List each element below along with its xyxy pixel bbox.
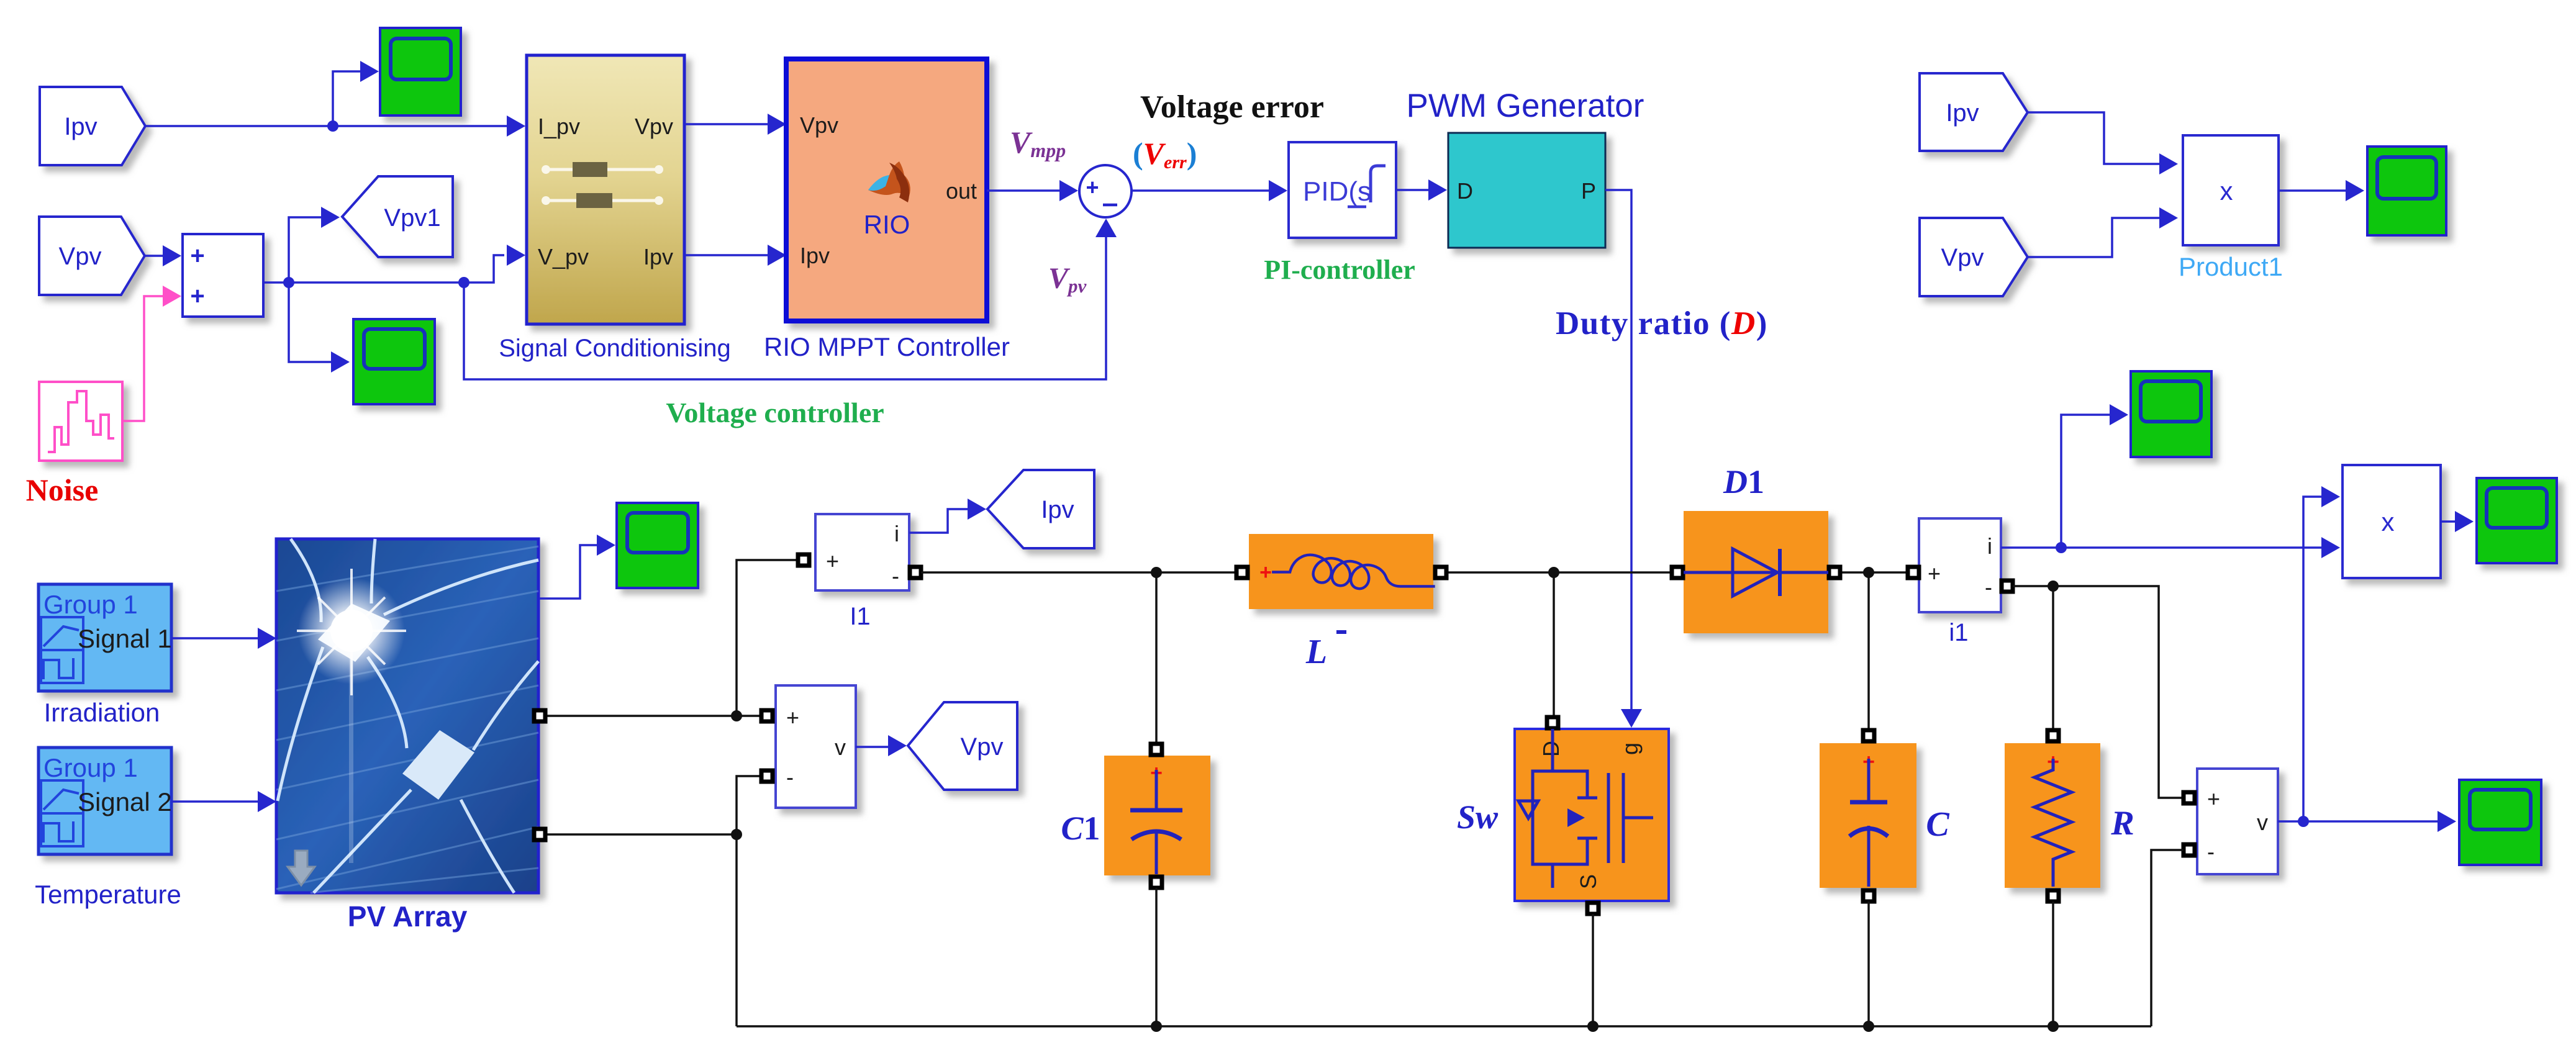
voltage sensor V (output) bbox=[2197, 769, 2278, 874]
wire Product1 to scope bbox=[2279, 189, 2347, 192]
svg-text:v: v bbox=[2257, 810, 2268, 835]
subsystem Signal Conditionising bbox=[527, 55, 684, 324]
svg-text:Ipv: Ipv bbox=[800, 243, 830, 268]
slider icon 2 bbox=[542, 199, 663, 202]
wire Product2 to scope6 bbox=[2441, 520, 2456, 523]
noise source block bbox=[39, 382, 122, 461]
svg-text:PI-controller: PI-controller bbox=[1264, 255, 1415, 285]
wire V out to goto Vpv bbox=[856, 746, 889, 748]
svg-text:Duty ratio (D): Duty ratio (D) bbox=[1556, 305, 1768, 341]
scope Scope2 bbox=[353, 319, 435, 404]
block PWM Generator bbox=[1448, 133, 1605, 248]
port i1+ bbox=[1908, 567, 1919, 578]
svg-text:i: i bbox=[894, 521, 899, 546]
capacitor C1 bbox=[1104, 756, 1210, 875]
svg-text:+: + bbox=[190, 242, 204, 269]
svg-text:R: R bbox=[2110, 804, 2134, 843]
wire Sw source to rail bbox=[1592, 914, 1594, 1026]
wire PV+ to V+ and I1 bbox=[545, 715, 760, 717]
wire V- lead bbox=[737, 776, 760, 834]
wire Ipv to Product1 bbox=[2028, 112, 2161, 164]
node C1 top bbox=[1151, 567, 1162, 578]
wire junction to scope1 bbox=[333, 71, 361, 126]
svg-text:+: + bbox=[826, 548, 839, 574]
pv down arrow icon bbox=[288, 851, 315, 885]
node sum out 2 bbox=[458, 277, 469, 288]
svg-text:v: v bbox=[835, 734, 846, 760]
wire v out up to Product2 bbox=[2303, 497, 2323, 821]
svg-text:Vpv: Vpv bbox=[961, 733, 1004, 761]
wire Vpv feedback to sum circle bbox=[464, 224, 1106, 379]
wire Temperature to PV array bbox=[171, 800, 259, 803]
wire i1 i out bbox=[2001, 546, 2323, 549]
wire sum out to Signal Conditioning V_pv bbox=[464, 255, 504, 282]
port V+ bbox=[761, 710, 773, 721]
svg-text:i1: i1 bbox=[1949, 619, 1968, 646]
node C1 ground bbox=[1151, 1021, 1162, 1032]
scope Scope4 bbox=[2367, 147, 2446, 235]
wire C1 bottom to rail bbox=[1155, 888, 1158, 1026]
svg-text:+: + bbox=[2207, 786, 2220, 811]
svg-text:x: x bbox=[2220, 176, 2233, 206]
node PV+ bbox=[731, 710, 742, 721]
wire Vout- to rail bbox=[2151, 850, 2184, 1026]
from tag Vpv (left) bbox=[39, 217, 145, 295]
node v out bbox=[2298, 816, 2309, 827]
wire Irradiation to PV array bbox=[171, 637, 259, 639]
wire RIO out to sum circle bbox=[987, 189, 1061, 192]
block PID controller bbox=[1289, 142, 1396, 238]
svg-text:Vpv: Vpv bbox=[59, 243, 102, 270]
svg-text:Signal Conditionising: Signal Conditionising bbox=[499, 335, 731, 362]
svg-text:PV Array: PV Array bbox=[348, 900, 468, 933]
svg-text:-: - bbox=[892, 563, 899, 589]
port PV+ bbox=[534, 710, 545, 721]
wire C top lead bbox=[1867, 572, 1870, 736]
svg-text:-: - bbox=[786, 764, 794, 790]
svg-text:+: + bbox=[1928, 561, 1941, 586]
signal builder Temperature bbox=[39, 748, 171, 854]
node i wire bbox=[2056, 542, 2067, 553]
node C top bbox=[1863, 567, 1874, 578]
svg-text:L: L bbox=[1305, 633, 1327, 671]
port i1- bbox=[2002, 581, 2013, 592]
svg-text:Ipv: Ipv bbox=[1946, 99, 1979, 127]
svg-text:RIO: RIO bbox=[864, 210, 910, 239]
block Product1 bbox=[2183, 135, 2279, 245]
slider icon 1 bbox=[542, 168, 663, 171]
node R top bbox=[2048, 581, 2059, 592]
svg-text:PWM Generator: PWM Generator bbox=[1407, 88, 1644, 124]
port PV- bbox=[534, 829, 545, 840]
port V- bbox=[761, 771, 773, 782]
svg-text:I_pv: I_pv bbox=[538, 114, 580, 139]
svg-text:Vpv: Vpv bbox=[1941, 244, 1984, 271]
wire SC Vpv out to RIO Vpv bbox=[684, 123, 769, 125]
wire C1 top lead bbox=[1155, 572, 1158, 743]
svg-text:Voltage error: Voltage error bbox=[1140, 89, 1324, 125]
current sensor I1 bbox=[815, 514, 909, 590]
diode D1 bbox=[1684, 511, 1828, 633]
scope Scope3 bbox=[617, 503, 698, 588]
svg-text:Group 1: Group 1 bbox=[43, 590, 138, 619]
capacitor C bbox=[1820, 743, 1916, 888]
wire C bottom to rail bbox=[1867, 902, 1870, 1026]
goto tag Vpv (measured) bbox=[908, 702, 1017, 790]
main dc bus wire I1- to i1+ bbox=[921, 571, 1907, 574]
svg-text:RIO MPPT Controller: RIO MPPT Controller bbox=[764, 332, 1010, 361]
svg-text:C1: C1 bbox=[1061, 810, 1100, 847]
svg-text:out: out bbox=[946, 178, 977, 204]
svg-text:P: P bbox=[1581, 178, 1596, 204]
matlab logo icon bbox=[868, 161, 910, 196]
scope Scope1 bbox=[380, 28, 461, 115]
wire sum output bbox=[263, 281, 464, 284]
goto tag Ipv (measured) bbox=[987, 470, 1094, 548]
svg-text:i: i bbox=[1987, 533, 1992, 559]
wire Ipv tag to Signal Conditioning I_pv bbox=[145, 125, 519, 127]
wire R top lead bbox=[2052, 586, 2054, 736]
svg-text:x: x bbox=[2382, 507, 2395, 536]
svg-text:Ipv: Ipv bbox=[64, 113, 97, 140]
inductor L bbox=[1249, 534, 1433, 609]
svg-text:D: D bbox=[1457, 178, 1473, 204]
svg-text:Signal 1: Signal 1 bbox=[78, 624, 172, 653]
svg-text:-: - bbox=[2207, 839, 2215, 864]
wire I1 i out to goto Ipv bbox=[909, 509, 969, 533]
wire PWM P to MOSFET gate (duty ratio) bbox=[1605, 190, 1631, 710]
svg-text:Vpv1: Vpv1 bbox=[384, 204, 440, 232]
pv cell diamond 1 with sun flare bbox=[318, 603, 390, 662]
svg-text:Ipv: Ipv bbox=[643, 244, 673, 269]
svg-text:+: + bbox=[1086, 174, 1099, 200]
svg-text:+: + bbox=[190, 282, 204, 310]
svg-text:C: C bbox=[1926, 805, 1949, 844]
port I1- bbox=[910, 567, 921, 578]
sum block Add bbox=[183, 234, 263, 317]
pv cell diamond 2 bbox=[402, 730, 474, 800]
svg-text:Signal 2: Signal 2 bbox=[78, 787, 172, 816]
voltage sensor V (input) bbox=[776, 685, 856, 808]
wire PV- down to ground rail bbox=[735, 834, 738, 1026]
wire to scope5 bbox=[2061, 415, 2111, 548]
svg-text:-: - bbox=[1985, 574, 1992, 600]
wire Vpv to Product1 bbox=[2028, 218, 2161, 257]
svg-text:Voltage controller: Voltage controller bbox=[666, 397, 884, 428]
svg-text:Vpv: Vpv bbox=[635, 114, 673, 139]
svg-text:Group 1: Group 1 bbox=[43, 753, 138, 782]
svg-text:+: + bbox=[1259, 561, 1272, 584]
wire PV- to node bbox=[545, 833, 737, 836]
wire Vpv tag to sum bbox=[145, 255, 164, 257]
node Sw drain bbox=[1548, 567, 1559, 578]
goto tag Vpv1 bbox=[342, 176, 453, 257]
wire PID to PWM D bbox=[1396, 189, 1430, 191]
wire sum circle to PID bbox=[1132, 189, 1270, 192]
sum circle (Vmpp - Vpv) bbox=[1079, 165, 1132, 217]
node C ground bbox=[1863, 1021, 1874, 1032]
wire to goto tag Vpv1 bbox=[289, 217, 321, 282]
wire noise to sum (magenta) bbox=[122, 296, 163, 421]
current sensor i1 bbox=[1919, 518, 2001, 612]
svg-text:I1: I1 bbox=[850, 603, 870, 630]
port Vout+ bbox=[2184, 792, 2195, 803]
wire R bottom to rail bbox=[2052, 902, 2054, 1026]
svg-text:PID(s: PID(s bbox=[1303, 176, 1371, 207]
block PV Array bbox=[276, 539, 538, 893]
subsystem RIO MPPT Controller bbox=[786, 59, 987, 321]
scope Scope7 bbox=[2459, 780, 2541, 865]
ground rail (bottom bus) bbox=[737, 1025, 2151, 1028]
node R ground bbox=[2048, 1021, 2059, 1032]
svg-text:Ipv: Ipv bbox=[1041, 496, 1074, 523]
resistor R bbox=[2005, 743, 2100, 888]
node Sw ground bbox=[1587, 1021, 1599, 1032]
port I1+ bbox=[798, 554, 809, 566]
scope Scope6 bbox=[2477, 478, 2557, 563]
svg-text:D1: D1 bbox=[1723, 463, 1764, 500]
wire i1- to R and Vout+ bbox=[2013, 586, 2182, 798]
from tag Vpv (top right) bbox=[1920, 218, 2028, 296]
signal builder Irradiation bbox=[39, 584, 171, 691]
mosfet Sw bbox=[1515, 729, 1669, 901]
svg-text:S: S bbox=[1576, 874, 1601, 889]
wire PV measurement to scope3 bbox=[539, 545, 598, 599]
node PV- bbox=[731, 829, 742, 840]
block Product2 bbox=[2342, 465, 2441, 578]
svg-text:Product1: Product1 bbox=[2179, 252, 2283, 281]
svg-text:Irradiation: Irradiation bbox=[44, 698, 160, 727]
svg-text:Temperature: Temperature bbox=[35, 880, 181, 909]
wire Sw drain lead bbox=[1553, 572, 1555, 717]
node on Ipv wire bbox=[327, 120, 338, 132]
svg-text:Noise: Noise bbox=[26, 472, 99, 507]
wire I1 plus lead bbox=[737, 560, 802, 716]
from tag Ipv (top-left) bbox=[40, 87, 145, 165]
svg-text:Sw: Sw bbox=[1457, 798, 1499, 836]
scope Scope5 bbox=[2131, 371, 2211, 457]
svg-text:g: g bbox=[1617, 743, 1643, 755]
from tag Ipv (top right) bbox=[1920, 73, 2028, 151]
svg-text:+: + bbox=[786, 705, 799, 730]
node sum out 1 bbox=[283, 277, 294, 288]
wire Vout v out bbox=[2278, 820, 2439, 823]
wire SC Ipv out to RIO Ipv bbox=[684, 254, 769, 256]
port Vout- bbox=[2184, 844, 2195, 856]
svg-text:V_pv: V_pv bbox=[538, 244, 589, 269]
wire to scope2 bbox=[289, 282, 331, 362]
svg-text:Vpv: Vpv bbox=[800, 112, 838, 138]
